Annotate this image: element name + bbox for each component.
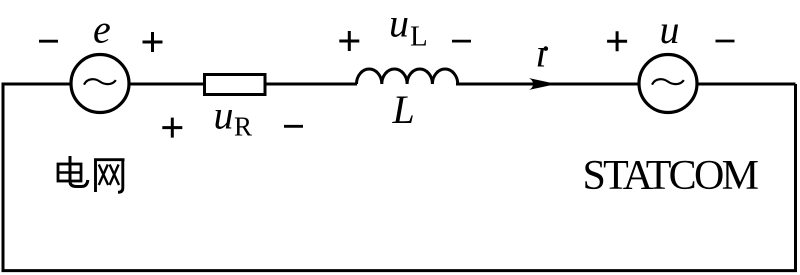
- current arrow i head: [529, 78, 557, 90]
- source u sine symbol: [652, 79, 684, 84]
- label 网 (wang): [96, 160, 125, 193]
- wire: resistor to inductor: [265, 83, 357, 86]
- resistor R: [205, 75, 266, 95]
- wire: source u to right edge: [696, 83, 796, 86]
- svg-text:STATCOM: STATCOM: [583, 153, 759, 199]
- plus sign (left of u): [607, 31, 627, 51]
- plus sign (left of uR): [162, 118, 182, 138]
- minus sign (left of e): [39, 40, 58, 43]
- wire: right vertical: [794, 84, 797, 271]
- wire: inductor to source u (current path): [456, 83, 640, 86]
- svg-text:L: L: [410, 20, 428, 52]
- svg-text:u: u: [214, 93, 234, 138]
- wire: top-left segment to source e: [2, 83, 73, 86]
- minus sign (right of u): [716, 40, 735, 43]
- plus sign (left of uL): [339, 31, 359, 51]
- inductor L (4 arcs): [357, 69, 458, 84]
- minus sign (right of uR): [284, 125, 303, 128]
- wire: left vertical: [2, 84, 5, 271]
- minus sign (right of uL): [452, 40, 471, 43]
- svg-text:L: L: [392, 87, 415, 132]
- svg-text:e: e: [93, 6, 111, 51]
- source u (AC source circle): [639, 55, 697, 113]
- svg-text:ı: ı: [536, 31, 547, 76]
- svg-text:u: u: [660, 7, 680, 52]
- svg-text:u: u: [389, 0, 409, 45]
- wire: bottom horizontal: [2, 269, 798, 272]
- svg-text:R: R: [234, 112, 252, 142]
- source e sine symbol: [84, 79, 116, 84]
- plus sign (right of e): [143, 32, 163, 52]
- label 电 (dian): [58, 156, 88, 187]
- source e (AC source circle): [71, 55, 129, 113]
- wire: source e to resistor: [128, 83, 204, 86]
